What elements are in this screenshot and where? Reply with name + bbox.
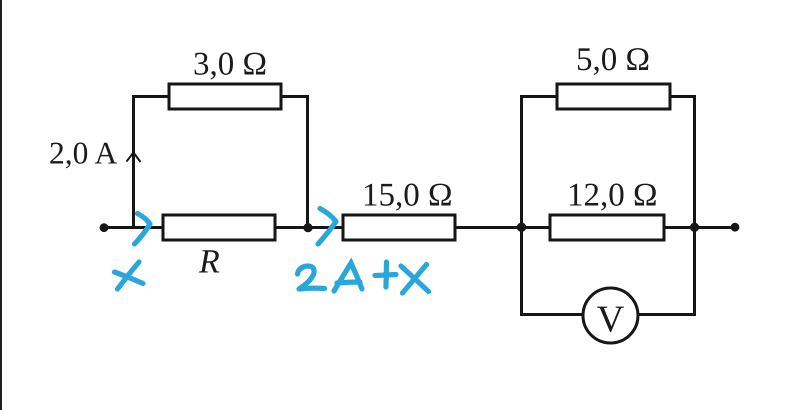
wire: left block left vertical	[132, 95, 135, 228]
wire: right block top, left segment	[520, 95, 558, 98]
annotation chevron arrow 1 (cyan)	[135, 214, 151, 245]
wire: voltmeter branch bottom left	[520, 313, 584, 316]
wire: 12-ohm to right end dot	[663, 226, 735, 229]
resistor R	[163, 215, 275, 240]
voltmeter U1 circle	[583, 288, 638, 343]
resistor 5.0-ohm	[557, 84, 670, 109]
annotation handwritten A (cyan)	[334, 263, 362, 291]
wire: left block top, right segment	[280, 95, 309, 98]
wire: right block top, right segment	[669, 95, 696, 98]
svg-text:15,0 Ω: 15,0 Ω	[362, 178, 453, 214]
wire: left block right vertical	[306, 95, 309, 228]
left page-edge line	[0, 0, 2, 410]
annotation chevron arrow 2 (cyan)	[318, 209, 336, 245]
wire: voltmeter branch bottom right	[637, 313, 696, 316]
wire: 15-ohm to 12-ohm resistor	[454, 226, 551, 229]
svg-text:5,0 Ω: 5,0 Ω	[576, 42, 650, 78]
wire: right block left vertical	[520, 95, 523, 316]
node dot right-block output	[690, 223, 699, 232]
svg-text:2,0 A: 2,0 A	[49, 136, 118, 171]
wire: right block right vertical	[693, 95, 696, 316]
resistor 15.0-ohm	[343, 215, 455, 240]
node dot left-block output	[303, 223, 312, 232]
wire: main bus left dot to R	[104, 226, 164, 229]
current arrow on left vertical	[127, 153, 141, 163]
resistor 12.0-ohm	[550, 215, 664, 240]
annotation handwritten plus (cyan)	[375, 262, 396, 287]
annotation handwritten X (cyan)	[401, 265, 429, 294]
svg-text:12,0 Ω: 12,0 Ω	[567, 178, 658, 214]
node dot left terminal	[100, 223, 109, 232]
svg-text:R: R	[198, 244, 220, 281]
annotation X mark (cyan)	[115, 262, 144, 289]
wire: R to 15-ohm resistor	[274, 226, 345, 229]
annotation handwritten 2 (cyan)	[298, 266, 325, 289]
svg-text:V: V	[597, 299, 625, 341]
node dot right terminal	[731, 223, 740, 232]
resistor 3.0-ohm	[169, 84, 281, 109]
node dot right-block input	[517, 223, 526, 232]
svg-text:3,0 Ω: 3,0 Ω	[193, 47, 267, 83]
wire: left block top, left segment	[132, 95, 170, 98]
